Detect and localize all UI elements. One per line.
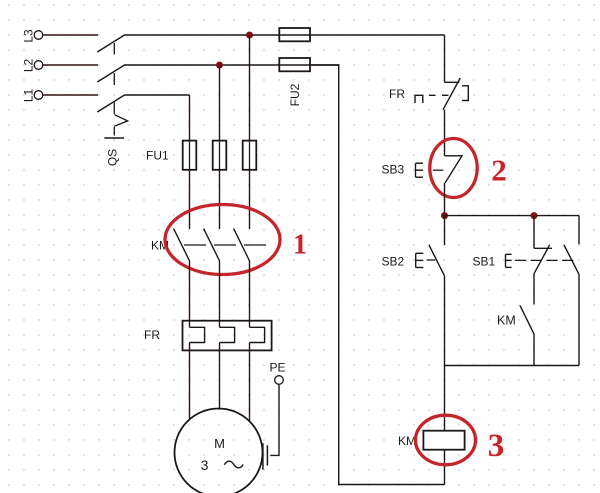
svg-text:1: 1 — [293, 230, 307, 261]
wire SB1 NO to bottom rail — [578, 274, 580, 365]
wire phase V vertical middle — [219, 261, 221, 327]
annotation number 1 — [293, 230, 307, 261]
svg-text:FR: FR — [144, 328, 160, 342]
label KM main — [151, 239, 169, 253]
svg-text:FU1: FU1 — [146, 149, 169, 163]
switch QS pole 3 blade — [97, 95, 124, 112]
terminal L3 — [34, 31, 43, 40]
label PE — [270, 361, 286, 375]
relay contact FR heater hook — [415, 95, 423, 103]
svg-text:2: 2 — [491, 153, 507, 188]
wire motor lead V — [219, 343, 221, 409]
switch QS linkage dashed line — [113, 43, 115, 136]
wire phase V vertical upper — [219, 65, 221, 229]
switch QS pole 1 blade — [97, 35, 124, 52]
pushbutton SB1 NO blade — [564, 245, 579, 274]
svg-text:3: 3 — [488, 428, 505, 464]
pushbutton SB2 blade — [429, 245, 444, 276]
pushbutton SB1 NC branch upper wire — [533, 216, 535, 249]
label FR left — [144, 328, 160, 342]
PE earth bar inner — [266, 445, 268, 465]
switch QS pole 2 blade — [97, 65, 124, 82]
highlight ellipse 3 — [416, 415, 476, 465]
wire SB2 to coil — [444, 276, 446, 431]
fuse FU1 wire passes — [190, 141, 250, 170]
terminal PE — [275, 376, 284, 385]
junction node L2/FU2 — [216, 62, 223, 69]
label L2 — [22, 59, 36, 73]
svg-text:KM: KM — [497, 314, 516, 328]
PE earth bar outer — [262, 443, 264, 469]
wire phase W vertical upper — [249, 35, 251, 229]
wire L1 bus — [125, 94, 190, 96]
pushbutton SB1 NC blade — [534, 245, 550, 274]
wire L2 bus — [124, 64, 339, 66]
pushbutton SB3 fixed tick — [445, 155, 462, 157]
svg-text:L2: L2 — [22, 59, 36, 73]
label SB2 — [382, 255, 405, 269]
wire L1 stub — [43, 94, 98, 96]
svg-text:3: 3 — [201, 457, 209, 473]
wire motor lead U — [189, 343, 191, 420]
pushbutton SB1 dashed link — [515, 259, 574, 261]
svg-text:FU2: FU2 — [288, 83, 302, 106]
annotation number 2 — [491, 153, 507, 188]
wire SB3 to node A — [444, 183, 446, 216]
wire node A to right branches — [445, 215, 580, 217]
label FU1 — [146, 149, 169, 163]
highlight ellipse 2 — [430, 139, 477, 198]
wire PE — [270, 385, 279, 456]
switch QS handle bar — [104, 137, 124, 139]
wire phase U vertical middle — [189, 261, 191, 327]
fuse FU2 upper body — [279, 28, 310, 41]
motor tilde symbol — [224, 461, 243, 468]
wire bottom rail — [445, 365, 580, 367]
svg-text:L3: L3 — [22, 29, 36, 43]
pushbutton SB3 actuator — [416, 163, 444, 177]
wire control return from FU2 — [310, 65, 445, 485]
coil KM body — [423, 431, 464, 450]
thermal relay FR frame — [183, 321, 272, 351]
label KM aux — [497, 314, 516, 328]
fuse FU1 pole 1 — [183, 141, 197, 170]
pushbutton SB1 NC fixed tick — [534, 247, 552, 249]
motor M body — [175, 409, 263, 493]
label L1 — [22, 89, 36, 103]
thermal relay FR heater 3 — [250, 327, 265, 342]
svg-text:KM: KM — [398, 434, 416, 448]
junction node L3/FU2 — [246, 32, 253, 39]
svg-text:L1: L1 — [22, 89, 36, 103]
label FU2 — [288, 83, 302, 106]
svg-text:PE: PE — [270, 361, 286, 375]
svg-text:SB2: SB2 — [382, 255, 405, 269]
label SB3 — [382, 163, 405, 177]
contactor KM main contact 3 — [234, 229, 250, 261]
wire coil to return rail — [444, 450, 446, 485]
fuse FU2 lower body — [279, 58, 310, 71]
label KM coil — [398, 434, 416, 448]
fuse FU1 pole 2 — [213, 141, 227, 170]
contactor KM linkage dashes — [184, 244, 266, 246]
wire KM aux to bottom rail — [533, 334, 535, 365]
wire FR to SB3 — [444, 110, 446, 156]
junction node A — [441, 212, 448, 219]
svg-text:FR: FR — [389, 87, 405, 101]
terminal L2 — [34, 61, 43, 70]
pushbutton SB1 NO branch upper wire — [578, 216, 580, 245]
pushbutton SB1 actuator — [506, 254, 512, 267]
relay contact FR blade — [443, 78, 460, 110]
annotation number 3 — [488, 428, 505, 464]
svg-text:SB1: SB1 — [473, 255, 496, 269]
label FR right — [389, 87, 405, 101]
thermal relay FR heater 1 — [190, 327, 205, 342]
pushbutton SB2 upper wire — [444, 216, 446, 245]
svg-text:QS: QS — [106, 149, 120, 166]
wire phase W vertical middle — [249, 261, 251, 327]
contactor KM main contact 1 — [174, 229, 190, 261]
relay contact FR fixed tick — [445, 81, 460, 83]
pushbutton SB3 blade — [445, 155, 463, 183]
contactor KM main contact 2 — [204, 229, 220, 261]
label QS — [106, 149, 120, 166]
wire L3 bus to control — [124, 34, 444, 36]
wire phase U vertical upper — [189, 95, 191, 229]
contactor KM auxiliary contact blade — [520, 305, 534, 334]
label SB1 — [473, 255, 496, 269]
wire motor lead W — [249, 343, 251, 421]
fuse FU1 pole 3 — [243, 141, 257, 170]
wire control feed down from L3 bus — [444, 35, 446, 82]
svg-text:M: M — [214, 436, 225, 451]
motor label 3 — [201, 457, 209, 473]
thermal relay FR heater 2 — [220, 327, 235, 342]
relay contact FR dashed link — [429, 94, 449, 96]
wire SB1 NC to KM aux — [533, 274, 535, 305]
label L3 — [22, 29, 36, 43]
switch QS operator chevron — [114, 115, 127, 127]
svg-text:SB3: SB3 — [382, 163, 405, 177]
wire L2 stub — [43, 64, 98, 66]
relay contact FR release hook — [462, 86, 468, 101]
junction node B — [531, 212, 538, 219]
terminal L1 — [34, 91, 43, 100]
pushbutton SB2 actuator — [416, 253, 436, 267]
wire L3 stub — [43, 34, 98, 36]
motor label M — [214, 436, 225, 451]
highlight ellipse 1 — [165, 205, 280, 275]
